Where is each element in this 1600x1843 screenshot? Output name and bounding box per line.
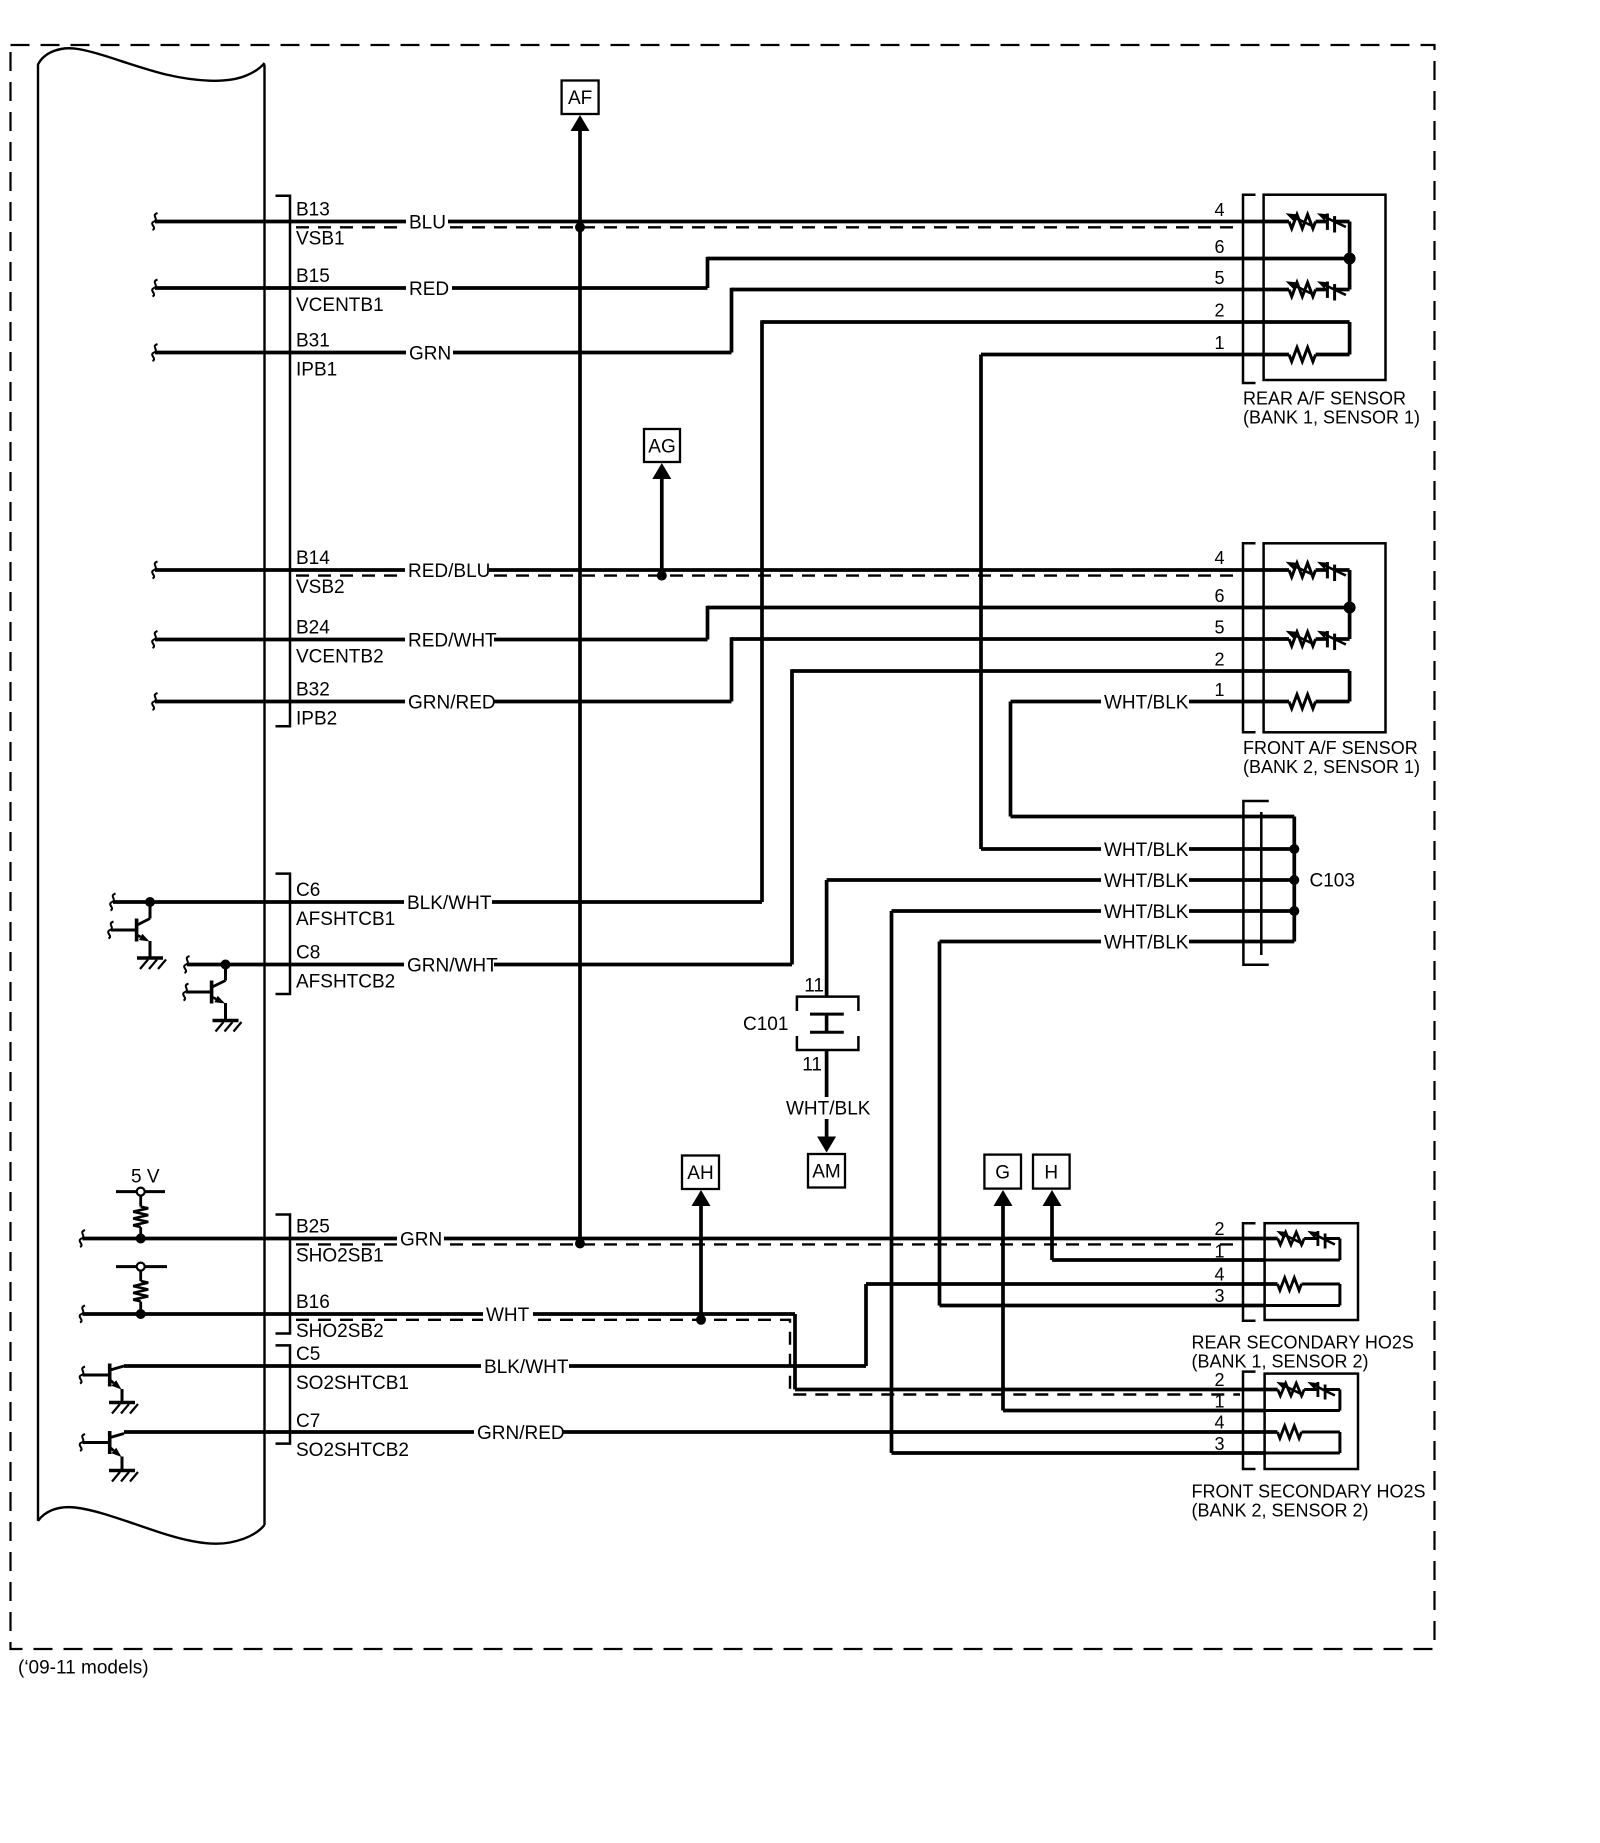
wire C101 to AM xyxy=(825,1050,829,1137)
wire colour label WHT/BLK xyxy=(1101,869,1189,892)
node AF at B25 shield xyxy=(575,1239,585,1249)
svg-text:B16: B16 xyxy=(296,1292,330,1313)
arrow into AG xyxy=(652,463,671,479)
wire corner B31 to rear pin 5 xyxy=(732,288,1264,353)
wire rear A/F pin 2 from C6 xyxy=(762,320,1264,902)
svg-text:AH: AH xyxy=(687,1163,713,1184)
svg-text:SHO2SB1: SHO2SB1 xyxy=(296,1246,384,1267)
bracket front A/F connector xyxy=(1243,543,1256,732)
wire colour label RED xyxy=(406,277,452,300)
connector ref box G xyxy=(984,1155,1021,1189)
label FRONT A/F SENSOR xyxy=(1243,738,1420,777)
bracket rear A/F connector xyxy=(1243,195,1256,383)
C103 common rail xyxy=(1292,817,1296,942)
shield dash of B13 xyxy=(296,226,1240,228)
svg-text:GRN: GRN xyxy=(400,1229,442,1250)
wire colour label WHT/BLK xyxy=(1101,838,1189,861)
svg-text:SO2SHTCB2: SO2SHTCB2 xyxy=(296,1440,409,1461)
svg-text:IPB2: IPB2 xyxy=(296,709,337,730)
wire C8 AFSHTCB2 GRN/WHT xyxy=(184,956,792,973)
ECM pin bracket group C5-C7 xyxy=(276,1345,291,1443)
pin label B32 IPB2 xyxy=(296,680,337,730)
svg-text:GRN/WHT: GRN/WHT xyxy=(407,955,498,976)
wire H vertical to rear HO2S pin 1 xyxy=(1050,1204,1054,1260)
wire rear HO2S pin 4 from C5 xyxy=(866,1282,1265,1286)
front A/F pin 2 internal wire xyxy=(1264,671,1350,702)
connector C103 xyxy=(1243,801,1268,965)
svg-text:RED/BLU: RED/BLU xyxy=(408,561,490,582)
svg-text:WHT/BLK: WHT/BLK xyxy=(1104,692,1189,713)
svg-text:IPB1: IPB1 xyxy=(296,360,337,381)
svg-text:REAR A/F SENSOR: REAR A/F SENSOR xyxy=(1243,389,1406,409)
wire B16 SHO2SB2 WHT xyxy=(80,1306,795,1323)
svg-text:B15: B15 xyxy=(296,266,330,287)
svg-text:6: 6 xyxy=(1214,586,1224,606)
rear A/F internal rail pins 4-6-5 xyxy=(1264,222,1350,290)
svg-text:VSB2: VSB2 xyxy=(296,577,345,598)
label C103 xyxy=(1310,871,1355,892)
svg-text:WHT/BLK: WHT/BLK xyxy=(1104,871,1189,892)
wire B31 IPB1 GRN xyxy=(152,344,731,361)
node AH at B16 shield xyxy=(696,1315,706,1325)
label C101 xyxy=(743,1014,788,1035)
pin numbers rear HO2S xyxy=(1214,1219,1224,1306)
wire colour label GRN/WHT xyxy=(404,954,498,977)
pin label B14 VSB2 xyxy=(296,548,345,598)
svg-text:BLK/WHT: BLK/WHT xyxy=(484,1357,569,1378)
label FRONT SECONDARY HO2S xyxy=(1192,1482,1426,1521)
node R2 at B16 xyxy=(136,1309,146,1319)
svg-text:(BANK 2, SENSOR 2): (BANK 2, SENSOR 2) xyxy=(1192,1501,1369,1521)
svg-text:BLK/WHT: BLK/WHT xyxy=(407,893,492,914)
rear HO2S internal rail pins 4-3 xyxy=(1265,1284,1340,1306)
svg-text:5 V: 5 V xyxy=(131,1167,160,1188)
rear A/F heater resistor (pin 1) xyxy=(1264,348,1350,362)
svg-text:H: H xyxy=(1044,1162,1058,1183)
rear HO2S sensing element (pin 2) xyxy=(1265,1231,1340,1249)
svg-text:B13: B13 xyxy=(296,200,330,221)
svg-text:AG: AG xyxy=(648,436,675,457)
wire colour label WHT xyxy=(483,1303,533,1326)
arrow into H xyxy=(1043,1190,1062,1206)
transistor Q4 (SO2SHTCB2 driver) xyxy=(80,1431,138,1482)
svg-text:(‘09-11 models): (‘09-11 models) xyxy=(18,1658,149,1679)
wire colour label GRN xyxy=(406,342,453,365)
svg-text:G: G xyxy=(995,1162,1010,1183)
svg-text:RED/WHT: RED/WHT xyxy=(408,630,497,651)
pin label 11 (bottom) xyxy=(802,1055,822,1076)
wire colour label RED/BLU xyxy=(405,559,490,582)
node AG at B14 shield xyxy=(657,571,667,581)
connector ref box AM xyxy=(808,1154,845,1188)
svg-text:FRONT A/F SENSOR: FRONT A/F SENSOR xyxy=(1243,738,1418,758)
dashed page border xyxy=(11,45,1435,1649)
svg-text:VCENTB2: VCENTB2 xyxy=(296,647,384,668)
rear A/F sensing element (pin 4) xyxy=(1264,213,1350,232)
svg-text:SHO2SB2: SHO2SB2 xyxy=(296,1321,384,1342)
wire B16 step down to front HO2S pin 2 xyxy=(795,1314,1265,1390)
sensor box FRONT A/F SENSOR xyxy=(1264,543,1386,732)
wire B24 VCENTB2 RED/WHT xyxy=(152,631,707,648)
wire corner B24 to front pin 6 xyxy=(708,606,1264,640)
svg-text:C101: C101 xyxy=(743,1014,788,1035)
connector ref box AF xyxy=(562,81,599,115)
wire B32 IPB2 GRN/RED xyxy=(152,693,731,710)
pin label C7 SO2SHTCB2 xyxy=(296,1411,409,1461)
rear HO2S internal rail pins 2-1 xyxy=(1265,1239,1340,1261)
svg-text:WHT: WHT xyxy=(486,1305,530,1326)
svg-text:B24: B24 xyxy=(296,618,330,639)
svg-text:(BANK 2, SENSOR 1): (BANK 2, SENSOR 1) xyxy=(1243,757,1420,777)
svg-text:6: 6 xyxy=(1214,237,1224,257)
wire B15 VCENTB1 RED xyxy=(152,280,707,297)
svg-text:WHT/BLK: WHT/BLK xyxy=(1104,840,1189,861)
wire C6 AFSHTCB1 BLK/WHT xyxy=(110,894,762,911)
svg-text:4: 4 xyxy=(1214,1413,1224,1433)
rear A/F pin 2 internal wire xyxy=(1264,322,1350,355)
wire AF vertical (shield bus) xyxy=(578,129,582,1244)
svg-text:WHT/BLK: WHT/BLK xyxy=(1104,902,1189,923)
wire front A/F pin 2 from C8 xyxy=(792,669,1264,964)
arrow into AF xyxy=(571,115,590,131)
svg-text:AFSHTCB2: AFSHTCB2 xyxy=(296,972,395,993)
svg-text:2: 2 xyxy=(1214,650,1224,670)
wire colour label WHT/BLK xyxy=(1101,691,1189,714)
resistor R1 pull-up to B25 xyxy=(116,1188,165,1239)
wire rear HO2S pin 1 from H xyxy=(1052,1258,1265,1262)
sensor box FRONT SECONDARY HO2S xyxy=(1265,1374,1358,1469)
bracket front HO2S connector xyxy=(1243,1372,1256,1469)
label WHT/BLK on AM wire xyxy=(784,1097,871,1120)
wire corner B32 to front pin 5 xyxy=(732,637,1264,701)
node rear A/F rail pin 6 xyxy=(1344,253,1356,265)
wire colour label WHT/BLK xyxy=(1101,931,1189,954)
transistor Q2 (AFSHTCB2 driver) xyxy=(183,965,241,1032)
wire C103 row4 WHT/BLK to rear HO2S pin 3 xyxy=(940,942,1295,1306)
svg-text:11: 11 xyxy=(804,976,824,997)
front HO2S heater resistor (pin 4) xyxy=(1265,1426,1340,1439)
svg-text:2: 2 xyxy=(1214,301,1224,321)
pin label 11 (top) xyxy=(804,976,824,997)
bracket rear HO2S connector xyxy=(1243,1223,1256,1321)
wire C5 SO2SHTCB1 BLK/WHT xyxy=(124,1284,866,1366)
svg-text:B14: B14 xyxy=(296,548,330,569)
wire AG vertical xyxy=(660,477,664,576)
wire G vertical to front HO2S pin 1 xyxy=(1001,1204,1005,1411)
wire C103 row2 WHT/BLK to C101 xyxy=(827,880,1295,997)
sensor box REAR A/F SENSOR xyxy=(1264,195,1386,380)
svg-text:GRN/RED: GRN/RED xyxy=(477,1423,565,1444)
pin label B13 VSB1 xyxy=(296,200,345,250)
pin numbers front A/F xyxy=(1214,548,1224,700)
node R1 at B25 xyxy=(136,1234,146,1244)
svg-text:5: 5 xyxy=(1214,268,1224,288)
wire rear A/F pin 1 to C103 xyxy=(981,355,1264,850)
front A/F internal rail pins 4-6-5 xyxy=(1264,570,1350,639)
node C103 rail row2 xyxy=(1289,875,1299,885)
svg-text:REAR SECONDARY HO2S: REAR SECONDARY HO2S xyxy=(1192,1333,1414,1353)
wire colour label GRN/RED xyxy=(474,1421,565,1444)
front A/F sensing element (pin 5) xyxy=(1264,631,1350,650)
svg-text:2: 2 xyxy=(1214,1370,1224,1390)
wire colour label GRN xyxy=(397,1228,444,1251)
svg-text:B31: B31 xyxy=(296,331,330,352)
connector ref box AH xyxy=(682,1156,719,1190)
svg-text:FRONT SECONDARY HO2S: FRONT SECONDARY HO2S xyxy=(1192,1482,1426,1502)
svg-text:C7: C7 xyxy=(296,1411,320,1432)
pin label B31 IPB1 xyxy=(296,331,337,381)
wire colour label WHT/BLK xyxy=(1101,900,1189,923)
pin label B16 SHO2SB2 xyxy=(296,1292,384,1342)
node C103 rail row3 xyxy=(1289,906,1299,916)
rear HO2S heater resistor (pin 4) xyxy=(1265,1278,1340,1291)
svg-text:VSB1: VSB1 xyxy=(296,229,345,250)
wire front A/F pin 1 WHT/BLK xyxy=(1011,702,1295,817)
svg-text:RED: RED xyxy=(409,279,449,300)
pin label B24 VCENTB2 xyxy=(296,618,384,668)
svg-text:VCENTB1: VCENTB1 xyxy=(296,295,384,316)
pin label B25 SHO2SB1 xyxy=(296,1217,384,1267)
svg-text:C5: C5 xyxy=(296,1344,320,1365)
svg-text:AFSHTCB1: AFSHTCB1 xyxy=(296,909,395,930)
label REAR A/F SENSOR xyxy=(1243,389,1420,428)
label REAR SECONDARY HO2S xyxy=(1192,1333,1414,1372)
wire C7 SO2SHTCB2 GRN/RED to front HO2S pin 4 xyxy=(124,1430,1265,1434)
svg-text:C103: C103 xyxy=(1310,871,1355,892)
arrow into AM xyxy=(817,1137,836,1153)
node Q2 collector on C8 wire xyxy=(221,960,231,970)
node front A/F rail pin 6 xyxy=(1344,602,1356,614)
svg-text:B25: B25 xyxy=(296,1217,330,1238)
wire B13 VSB1 BLU to rear A/F pin 4 xyxy=(152,213,1263,230)
svg-text:2: 2 xyxy=(1214,1219,1224,1239)
arrow into G xyxy=(994,1190,1013,1206)
wire front HO2S pin 1 from G xyxy=(1003,1409,1265,1413)
ECM pin bracket group B13-B32 xyxy=(276,196,291,727)
wire C103 row1 WHT/BLK xyxy=(981,847,1294,851)
pin label B15 VCENTB1 xyxy=(296,266,384,316)
wire colour label BLK/WHT xyxy=(481,1355,569,1378)
svg-text:1: 1 xyxy=(1214,680,1224,700)
shield dash of B25 xyxy=(296,1243,1240,1245)
svg-text:C8: C8 xyxy=(296,943,320,964)
transistor Q1 (AFSHTCB1 driver) xyxy=(108,902,166,969)
wire B25 SHO2SB1 GRN to rear HO2S pin 2 xyxy=(80,1230,1265,1247)
svg-text:1: 1 xyxy=(1214,1242,1224,1262)
wire colour label BLK/WHT xyxy=(404,891,492,914)
ECM/PCM connector body (torn box) xyxy=(38,48,265,1543)
shield dash of B16 (stepped) xyxy=(296,1320,1240,1395)
5V supply label xyxy=(131,1167,160,1188)
wire colour label GRN/RED xyxy=(405,691,496,714)
front HO2S internal rail pins 4-3 xyxy=(1265,1432,1340,1453)
front HO2S sensing element (pin 2) xyxy=(1265,1382,1340,1400)
node Q1 collector on C6 wire xyxy=(145,897,155,907)
connector ref box AG xyxy=(644,429,680,462)
pin numbers rear A/F xyxy=(1214,200,1224,353)
svg-text:GRN: GRN xyxy=(409,343,451,364)
svg-text:(BANK 1, SENSOR 1): (BANK 1, SENSOR 1) xyxy=(1243,408,1420,428)
wire AH vertical xyxy=(699,1204,703,1320)
front HO2S internal rail pins 2-1 xyxy=(1265,1390,1340,1411)
connector C101 xyxy=(797,997,859,1050)
svg-text:WHT/BLK: WHT/BLK xyxy=(786,1099,871,1120)
svg-text:AF: AF xyxy=(568,88,592,109)
svg-text:AM: AM xyxy=(812,1162,841,1183)
ECM pin bracket group B25-B16 xyxy=(276,1215,291,1334)
rear A/F sensing element (pin 5) xyxy=(1264,281,1350,300)
svg-text:11: 11 xyxy=(802,1055,822,1076)
wire colour label RED/WHT xyxy=(405,629,497,652)
wire B14 VSB2 RED/BLU to front A/F pin 4 xyxy=(152,562,1263,579)
pin label C6 AFSHTCB1 xyxy=(296,880,395,930)
svg-text:WHT/BLK: WHT/BLK xyxy=(1104,932,1189,953)
pin label C8 AFSHTCB2 xyxy=(296,943,395,993)
svg-text:4: 4 xyxy=(1214,200,1224,220)
svg-text:B32: B32 xyxy=(296,680,330,701)
node C103 rail row1 xyxy=(1289,844,1299,854)
shield dash of B14 xyxy=(296,574,1240,576)
arrow into AH xyxy=(692,1190,711,1206)
ECM pin bracket group C6-C8 xyxy=(276,874,291,994)
wire C103 row3 WHT/BLK to front HO2S pin 3 xyxy=(892,911,1295,1453)
wire corner B15 to rear pin 6 xyxy=(708,257,1264,288)
node AF at B13 shield xyxy=(575,222,585,232)
pin numbers front HO2S xyxy=(1214,1370,1224,1454)
front A/F sensing element (pin 4) xyxy=(1264,562,1350,581)
svg-text:5: 5 xyxy=(1214,618,1224,638)
note (09-11 models) xyxy=(18,1658,149,1679)
svg-text:GRN/RED: GRN/RED xyxy=(408,692,496,713)
svg-text:SO2SHTCB1: SO2SHTCB1 xyxy=(296,1373,409,1394)
svg-text:BLU: BLU xyxy=(409,212,446,233)
svg-text:C6: C6 xyxy=(296,880,320,901)
transistor Q3 (SO2SHTCB1 driver) xyxy=(80,1364,138,1414)
svg-text:(BANK 1, SENSOR 2): (BANK 1, SENSOR 2) xyxy=(1192,1352,1369,1372)
resistor R2 pull-up to B16 xyxy=(116,1263,167,1314)
svg-text:3: 3 xyxy=(1214,1434,1224,1454)
connector ref box H xyxy=(1033,1155,1070,1189)
front A/F heater resistor (pin 1) xyxy=(1264,695,1350,709)
pin label C5 SO2SHTCB1 xyxy=(296,1344,409,1394)
svg-text:4: 4 xyxy=(1214,548,1224,568)
svg-text:4: 4 xyxy=(1214,1265,1224,1285)
svg-text:3: 3 xyxy=(1214,1286,1224,1306)
sensor box REAR SECONDARY HO2S xyxy=(1265,1223,1358,1320)
svg-text:1: 1 xyxy=(1214,333,1224,353)
svg-text:1: 1 xyxy=(1214,1392,1224,1412)
wire colour label BLU xyxy=(406,211,448,234)
